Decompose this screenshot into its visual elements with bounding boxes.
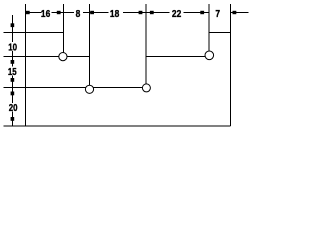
svg-text:7: 7 <box>215 8 220 20</box>
wire top dimension line segment 8 <box>64 11 74 13</box>
svg-text:16: 16 <box>41 8 50 20</box>
wire extension line and wall A x=63.7 <box>63 4 65 57</box>
arrowhead 10 top outside <box>11 23 15 27</box>
wire bottom edge y=126.2 with left extension <box>4 125 231 127</box>
wire extension line and wall B x=89.7 <box>89 4 91 89</box>
arrowhead 16 left <box>26 11 30 14</box>
arrowhead 20 bottom <box>11 117 15 121</box>
arrowhead 22 right <box>200 11 204 14</box>
arrowhead 18 left <box>90 11 94 14</box>
arrowhead 7 right outside <box>233 11 237 14</box>
wire extension line and right edge of part x=230.7 <box>230 4 232 126</box>
hole C corner relief <box>142 84 150 92</box>
arrowhead 18 right <box>139 11 143 14</box>
svg-text:22: 22 <box>172 8 181 20</box>
arrowhead 20 top <box>11 92 15 96</box>
wire floor1 y=56.4 with left extension <box>4 55 90 57</box>
svg-text:15: 15 <box>8 66 17 77</box>
hole B corner relief <box>85 85 93 93</box>
wire extension line and left edge of part x=25.6 <box>25 4 27 126</box>
wire top dimension line segment 18 <box>90 11 109 13</box>
wire top dimension tail right of tick 7 <box>231 11 249 13</box>
wire top surface right y=32.3 <box>209 31 231 33</box>
arrowhead 16 right <box>57 11 61 14</box>
wire extension line and wall C x=146.2 <box>145 4 147 88</box>
svg-text:20: 20 <box>9 102 18 113</box>
wire extension line and wall D x=209.2 <box>208 4 210 55</box>
wire left dimension line vertical segments <box>11 15 13 42</box>
svg-text:18: 18 <box>110 8 119 20</box>
wire top dimension line segment 22 <box>146 11 169 13</box>
svg-text:8: 8 <box>76 8 81 20</box>
arrowhead 22 left <box>150 11 154 14</box>
hole A corner relief <box>59 53 67 61</box>
arrowhead 15 top <box>11 60 15 64</box>
hole D corner relief <box>205 51 214 60</box>
wire floor3 y=56.4 right side <box>146 55 209 57</box>
wire floor2 y=87.7 with left extension <box>4 87 147 89</box>
wire top surface y=32.3 with left extension <box>4 31 64 33</box>
arrowhead 15 bottom <box>11 78 15 82</box>
wire top dimension line segment 16 <box>26 11 42 13</box>
svg-text:10: 10 <box>8 41 17 52</box>
